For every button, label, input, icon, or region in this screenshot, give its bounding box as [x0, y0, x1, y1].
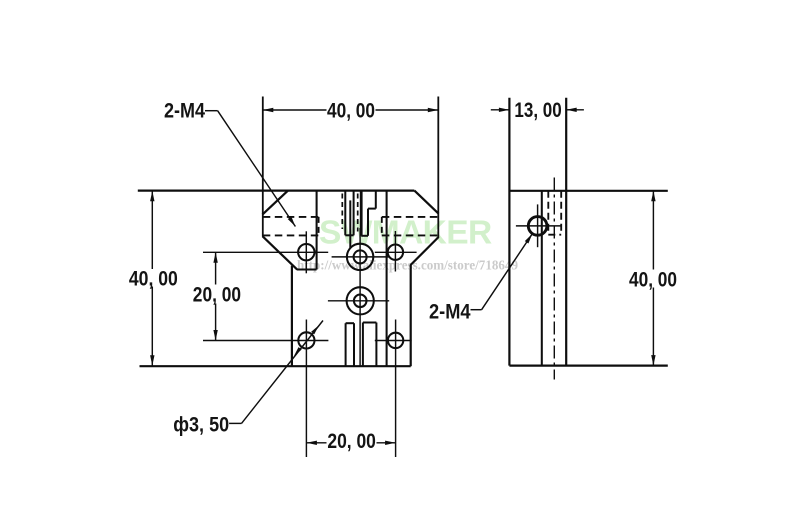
slot cluster bottom connector: [345, 234, 353, 236]
hidden hole right wing end cap dashed: [381, 217, 383, 236]
svg-text:13, 00: 13, 00: [514, 98, 561, 122]
side view top edge (with right 40,00 extension): [509, 190, 667, 192]
dimension 40,00 left line lower segment: [151, 287, 153, 366]
side view hole circle: [528, 217, 547, 236]
front view right edge upper (with 40,00 top extension): [437, 97, 439, 238]
arrow leader 2-M4 right: [525, 234, 533, 244]
side view hidden slot bottom dashed: [548, 234, 561, 236]
front view inner ledge: [297, 268, 317, 270]
arrow 20,00 bottom dim right: [385, 441, 396, 445]
slot cluster solid line d: [353, 191, 355, 236]
center hole 1 inner circle: [354, 250, 367, 263]
hidden hole left wing bottom dashed: [263, 234, 319, 236]
dimension 40,00 top line left segment: [263, 109, 327, 111]
dimension 20,00 line upper segment: [215, 252, 217, 284]
hidden hole right wing bottom dashed: [382, 234, 439, 236]
leader 2-M4 top diagonal: [218, 111, 296, 227]
arrow 40,00 right bottom: [651, 355, 655, 366]
svg-text:40, 00: 40, 00: [629, 267, 677, 291]
front view bottom edge with left extension: [140, 365, 411, 367]
hole bottom-left h-centerline (merges 20,00 extension): [203, 340, 328, 342]
leader 2-M4 right diagonal: [482, 234, 533, 310]
svg-text:20, 00: 20, 00: [193, 282, 241, 306]
front view right body edge: [410, 264, 412, 366]
arrow 40,00 right top: [651, 191, 655, 202]
arrow 40,00 left top: [150, 191, 154, 202]
arrow 13,00 left: [499, 108, 510, 112]
dimension 40,00 left line upper segment: [151, 191, 153, 269]
leader phi350 diagonal: [242, 321, 324, 424]
arrow 20,00 bottom: [213, 330, 217, 341]
side view hidden slot right dashed: [560, 191, 562, 235]
slot cluster solid line b: [344, 191, 346, 236]
leader phi350 tail: [229, 422, 241, 424]
front view top-right chamfer: [414, 191, 438, 214]
front view left body edge: [291, 266, 293, 367]
slot cluster dashed line e: [357, 194, 359, 232]
arrow leader phi350 upper: [311, 325, 319, 334]
dimension 40,00 top line right segment: [376, 109, 439, 111]
svg-text:ф3, 50: ф3, 50: [173, 412, 229, 436]
dimension 20,00 bottom line right segment: [377, 442, 396, 444]
side view centerline dash-dot: [553, 178, 555, 380]
arrow 13,00 right: [566, 108, 577, 112]
bottom slot left wall a: [345, 323, 347, 366]
side view right edge (with 13,00 extension): [565, 98, 567, 366]
dimension 13,00 left tail: [491, 109, 510, 111]
center hole 2 h-centerline: [328, 300, 389, 302]
bottom slot right wall b: [375, 323, 377, 367]
step notch bottom: [361, 235, 368, 237]
center column v-centerline: [359, 228, 361, 366]
step notch riser: [367, 209, 369, 236]
slot cluster dashed line a: [341, 194, 343, 230]
hole bottom-right v-centerline (merges bottom 20,00 extension): [395, 320, 397, 458]
arrow 40,00 left bottom: [150, 355, 154, 366]
side view inner vertical: [541, 191, 543, 366]
center hole 1 outer circle: [347, 244, 373, 270]
svg-text:20, 00: 20, 00: [327, 429, 376, 453]
hidden hole left wing top dashed: [263, 216, 319, 218]
front view right lower chamfer: [411, 237, 439, 265]
leader 2-M4 top tail: [205, 110, 218, 112]
hole bottom-left circle: [298, 332, 314, 348]
arrow leader 2-M4 top: [288, 217, 296, 227]
front view top edge with left extension: [138, 190, 415, 192]
dimension 40,00 right line lower segment: [652, 288, 654, 366]
bottom slot right wall a: [362, 323, 364, 367]
hidden hole right wing top dashed: [382, 216, 439, 218]
center hole 2 inner circle: [354, 295, 367, 308]
side view left edge (with 13,00 extension): [508, 98, 510, 366]
side view hidden slot left dashed: [547, 191, 549, 235]
dimension 20,00 bottom line left segment: [306, 442, 326, 444]
hole bottom-left v-centerline (merges bottom 20,00 extension): [305, 320, 307, 458]
svg-text:http://www.aliexpress.com/stor: http://www.aliexpress.com/store/718649: [297, 258, 518, 273]
step notch upper wall: [375, 191, 377, 209]
side view hole h-centerline: [516, 225, 561, 227]
long inner vertical right: [386, 191, 388, 367]
hole bottom-right circle: [388, 333, 403, 348]
hole top-right h-centerline: [375, 251, 417, 253]
side view hole v-centerline: [537, 204, 539, 247]
dimension 40,00 right line upper segment: [652, 191, 654, 270]
hole top-right v-centerline: [394, 231, 396, 272]
hole top-left h-centerline (merges 20,00 extension): [203, 251, 328, 253]
bottom slot left wall b: [353, 323, 355, 366]
center hole 2 outer circle: [347, 287, 374, 314]
bottom slot right top: [363, 322, 377, 324]
arrow 40,00 top right: [428, 108, 439, 112]
arrow 20,00 top: [213, 252, 217, 262]
slot cluster long line c: [349, 200, 351, 248]
dimension 13,00 right tail: [566, 109, 584, 111]
arrow 20,00 bottom dim left: [306, 441, 317, 445]
hidden hole left wing end cap dashed: [318, 217, 320, 236]
arrow 40,00 top left: [263, 108, 274, 112]
hole top-right circle: [388, 245, 403, 260]
svg-text:2-M4: 2-M4: [164, 98, 205, 122]
hole bottom-right h-centerline: [375, 340, 412, 342]
side view bottom edge (with right 40,00 extension): [509, 365, 667, 367]
front view top-left chamfer: [262, 191, 288, 215]
center hole 1 h-centerline: [332, 256, 390, 258]
dimension 20,00 line lower segment: [215, 304, 217, 341]
svg-text:2-M4: 2-M4: [429, 299, 471, 323]
svg-text:40, 00: 40, 00: [129, 267, 178, 291]
hole top-left v-centerline: [305, 231, 307, 273]
front view left lower chamfer: [263, 236, 298, 269]
arrow leader phi350 lower: [294, 347, 302, 356]
step notch upper tread: [368, 208, 376, 210]
leader 2-M4 right tail: [471, 309, 482, 311]
slot cluster thick line f: [360, 191, 363, 236]
front view inner vertical at ledge: [316, 191, 318, 270]
bottom slot left top: [346, 322, 354, 324]
hole top-left circle: [298, 244, 314, 260]
svg-text:40, 00: 40, 00: [327, 98, 375, 122]
front view left edge upper (with 40,00 top extension): [262, 97, 264, 237]
